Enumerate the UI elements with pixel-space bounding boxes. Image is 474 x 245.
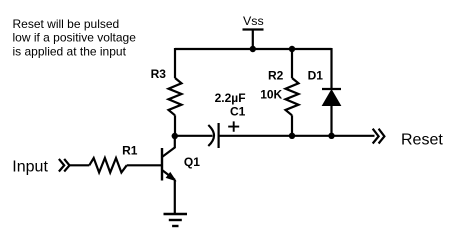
wire R3 top lead	[174, 48, 176, 78]
junction Q1 collector node	[172, 133, 178, 139]
resistor R2	[286, 78, 299, 115]
svg-text:C1: C1	[230, 105, 246, 119]
note text	[13, 17, 137, 58]
wire base	[127, 164, 161, 166]
wire D1 top lead	[330, 48, 332, 89]
junction R2 bottom	[289, 133, 295, 139]
power symbol Vss	[243, 30, 264, 50]
connector input chevrons	[59, 159, 70, 172]
wire output	[219, 135, 375, 137]
capacitor C1	[208, 121, 239, 148]
svg-text:Input: Input	[12, 159, 48, 176]
svg-text:10K: 10K	[260, 88, 282, 102]
svg-text:is applied at the input: is applied at the input	[13, 44, 127, 58]
ground	[164, 214, 188, 226]
junction Vss tap	[250, 46, 256, 52]
svg-text:R2: R2	[268, 68, 284, 82]
svg-text:low if a positive voltage: low if a positive voltage	[13, 31, 137, 45]
diode D1	[322, 89, 341, 106]
wire input	[70, 164, 90, 166]
svg-text:D1: D1	[308, 68, 324, 82]
wire D1 bottom lead	[330, 105, 332, 136]
svg-text:R1: R1	[122, 143, 138, 157]
connector output chevrons	[373, 129, 385, 144]
svg-text:Reset: Reset	[401, 131, 443, 148]
wire emitter lead	[174, 180, 176, 214]
svg-text:R3: R3	[151, 67, 167, 81]
svg-text:Vss: Vss	[243, 14, 264, 28]
svg-text:Q1: Q1	[184, 155, 200, 169]
wire R2 bottom lead	[291, 115, 293, 136]
wire R2 top lead	[291, 48, 293, 78]
resistor R3	[169, 78, 182, 115]
junction D1 bottom	[328, 133, 334, 139]
svg-text:2.2µF: 2.2µF	[215, 91, 246, 105]
junction R2 top	[289, 46, 295, 52]
svg-text:Reset will be pulsed: Reset will be pulsed	[13, 17, 120, 31]
transistor Q1	[162, 136, 175, 181]
resistor R1	[89, 158, 126, 173]
wire collector node to C1	[175, 135, 213, 137]
wire R3 bottom lead	[174, 115, 176, 136]
wire top rail	[175, 48, 332, 50]
